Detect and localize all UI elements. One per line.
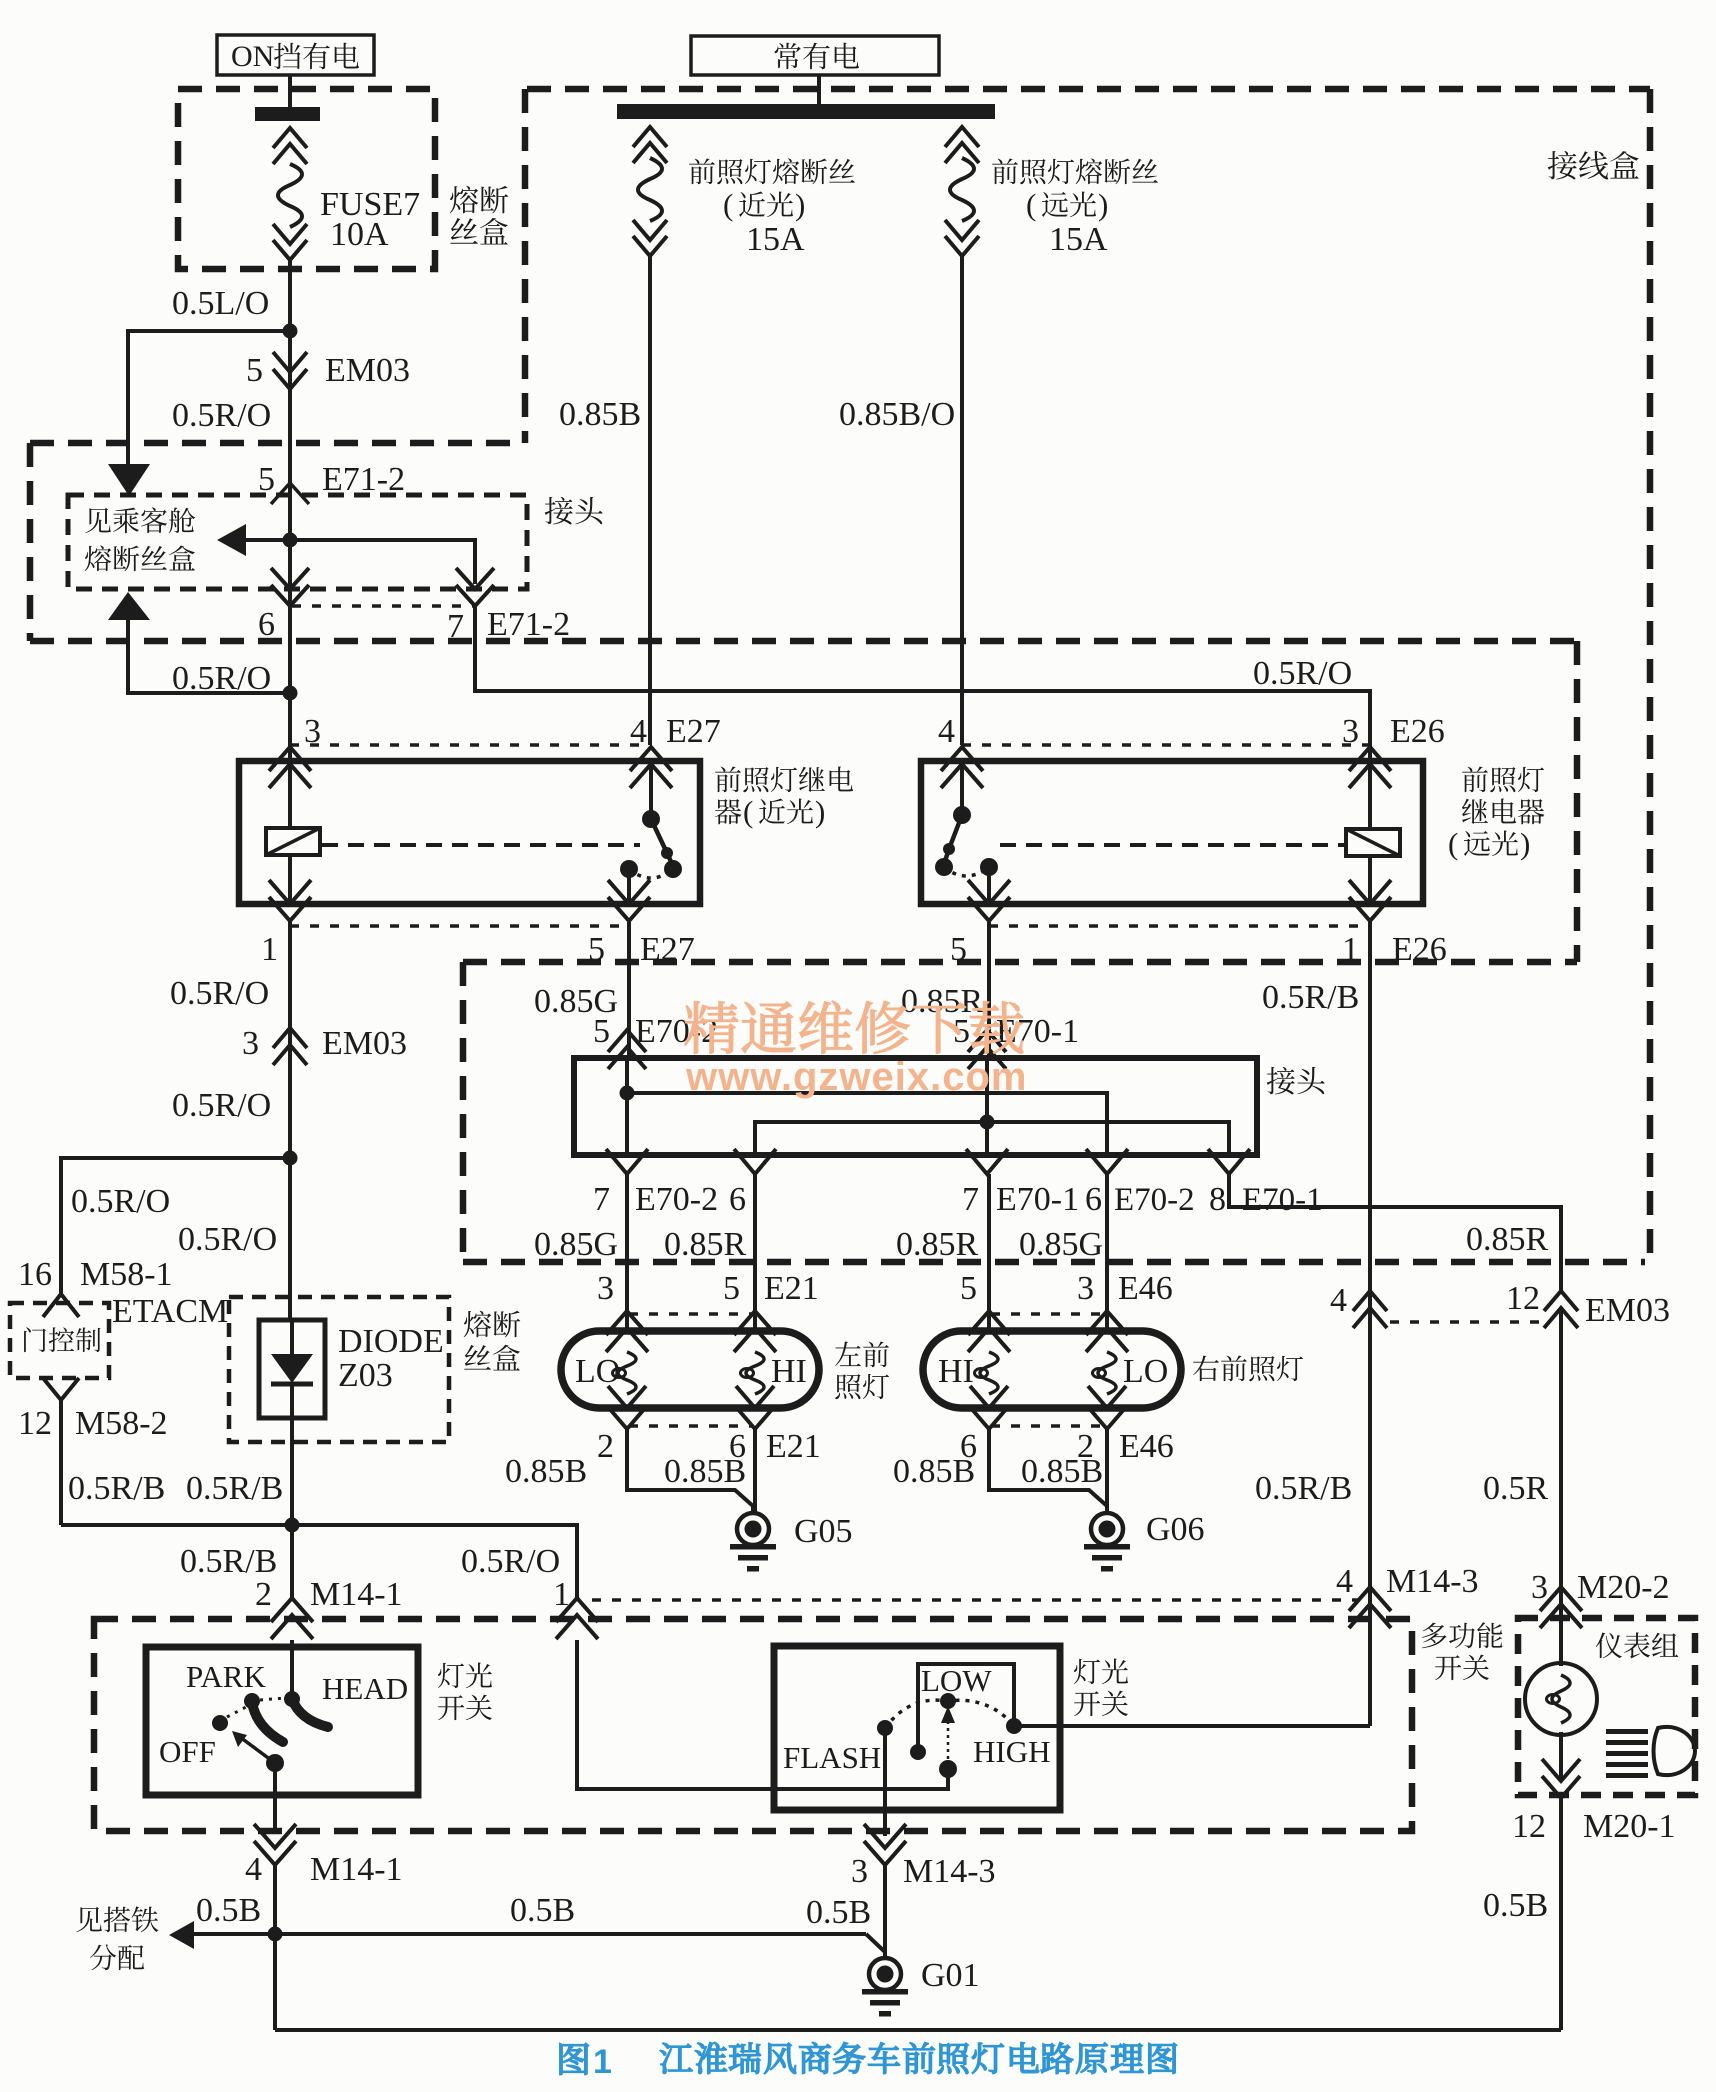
svg-text:0.5R/B: 0.5R/B (68, 1470, 165, 1507)
svg-text:E70-1: E70-1 (996, 1181, 1079, 1218)
relay coil (low beam) (266, 761, 320, 904)
wire dimmer feed (577, 1640, 948, 1789)
wire 0.85R to instrument feed (1229, 1174, 1561, 1290)
connector E46 pins 5,3 (960, 1270, 1010, 1352)
wire 0.5R/B from door control joins (61, 1523, 292, 1527)
svg-text:E46: E46 (1118, 1270, 1173, 1307)
wire 0.5R/O to dimmer feed (292, 1525, 577, 1600)
connector E26 pin 3 (1342, 713, 1445, 788)
bulb LO filament (575, 1352, 636, 1394)
wire (288, 389, 292, 540)
svg-text:1: 1 (261, 931, 278, 968)
connector E27 pin 1 (261, 880, 311, 968)
wire 0.85B (648, 256, 652, 745)
svg-text:7: 7 (447, 608, 464, 645)
wire to E21 pin 3 (625, 1174, 629, 1331)
svg-text:LO: LO (1123, 1353, 1168, 1390)
svg-text:7: 7 (593, 1181, 610, 1218)
connector body dashes E27 top (290, 743, 651, 747)
svg-text:(: ( (723, 187, 733, 222)
svg-text:0.85R: 0.85R (896, 1226, 979, 1263)
wire 0.5B to G01 (806, 1865, 885, 1957)
connector E71-2 pin 7 (447, 568, 570, 645)
connector M58-2 pin 12 (18, 1378, 168, 1525)
svg-text:HEAD: HEAD (322, 1671, 408, 1706)
wire FLASH to ground (883, 1728, 887, 1836)
wire 0.5R/O relay to EM03 (170, 922, 290, 1158)
connector EM03 pin 5 (246, 331, 410, 392)
svg-text:0.5L/O: 0.5L/O (172, 285, 269, 322)
relay contact (high beam) (935, 761, 998, 904)
svg-text:www.gzweix.com: www.gzweix.com (685, 1055, 1027, 1099)
connector E27 pin 3 (269, 747, 311, 771)
label 熔断丝盒 (450, 186, 509, 245)
wire diode to light switch (290, 1418, 294, 1598)
svg-text:DIODE: DIODE (338, 1323, 444, 1360)
label 接头 (545, 497, 573, 525)
bulb HI filament (741, 1352, 807, 1394)
svg-text:E70-2: E70-2 (635, 1181, 718, 1218)
svg-text:): ) (795, 187, 805, 222)
relay headlight low beam 前照灯继电器(近光) (239, 761, 700, 904)
wire 0.5R/O from pin7 to high-beam relay coil (475, 603, 1370, 761)
wire HIGH to M14-3 pin4 (1014, 1724, 1370, 1728)
diode DIODE Z03 (259, 1320, 325, 1418)
svg-text:HIGH: HIGH (973, 1734, 1051, 1769)
connector body dashes E26 top (962, 743, 1370, 747)
connector E27 pin 4 (630, 713, 721, 788)
relay label (近光) (715, 766, 853, 829)
svg-text:E70-1: E70-1 (1242, 1182, 1323, 1218)
svg-text:0.5R/B: 0.5R/B (186, 1470, 283, 1507)
svg-text:): ) (1520, 826, 1530, 861)
svg-text:0.5R/O: 0.5R/O (172, 397, 271, 434)
wire 0.85B to ground G05 (505, 1429, 755, 1513)
svg-text:0.5R/O: 0.5R/O (1253, 655, 1352, 692)
svg-text:LO: LO (575, 1353, 620, 1390)
ground G01 (862, 1957, 980, 2017)
svg-text:0.5R/B: 0.5R/B (1255, 1470, 1352, 1507)
svg-text:OFF: OFF (159, 1734, 216, 1769)
svg-text:0.85B: 0.85B (893, 1453, 975, 1490)
dashed link coil to contact (322, 843, 640, 847)
connector EM03 pin 3 (242, 1025, 407, 1065)
svg-text:E21: E21 (766, 1428, 821, 1465)
svg-text:G05: G05 (794, 1513, 853, 1550)
switch PARK/HEAD contacts (212, 1640, 328, 1772)
svg-text:M14-1: M14-1 (310, 1576, 403, 1613)
bulb LO filament right (1093, 1352, 1169, 1394)
svg-text:0.5B: 0.5B (1483, 1887, 1548, 1924)
relay coil (high beam) (1346, 761, 1400, 904)
off-page arrow (up) (108, 592, 150, 620)
svg-text:0.5B: 0.5B (510, 1892, 575, 1929)
wire branch to passenger fuse box (128, 331, 290, 466)
svg-text:10A: 10A (330, 216, 389, 253)
svg-text:0.85G: 0.85G (534, 1226, 618, 1263)
svg-text:E46: E46 (1119, 1428, 1174, 1465)
connector body dashes EM03 (1390, 1320, 1540, 1324)
svg-text:LOW: LOW (921, 1663, 992, 1698)
svg-text:FLASH: FLASH (783, 1740, 881, 1775)
svg-text:0.5B: 0.5B (806, 1894, 871, 1931)
svg-text:1: 1 (1342, 931, 1359, 968)
junction (283, 1151, 298, 1166)
relay label (远光) (1448, 767, 1544, 861)
svg-text:6: 6 (258, 606, 275, 643)
svg-text:3: 3 (851, 1853, 868, 1890)
dimmer switch box 灯光开关 (LOW/FLASH/HIGH) (774, 1646, 1060, 1810)
label DIODE Z03 (338, 1323, 444, 1394)
svg-text:E71-2: E71-2 (322, 461, 405, 498)
svg-text:E27: E27 (666, 713, 721, 750)
inner box 见乘客舱熔断丝盒 (dashed) (68, 495, 527, 589)
svg-text:3: 3 (242, 1025, 259, 1062)
connector E21 pin 5 feed (729, 1149, 776, 1218)
connector block 接头 (E70) (574, 1058, 1257, 1155)
wire diagonal into G01 (866, 1934, 885, 1958)
connector E71-2 pin 5 (258, 461, 405, 504)
svg-text:M14-1: M14-1 (310, 1851, 403, 1888)
fuse FUSE7 10A (273, 128, 307, 331)
off-page arrow (left) (217, 524, 246, 556)
wire 0.85R relay to E70-1 (901, 922, 989, 1058)
connector E26 pin 5 (950, 880, 1010, 968)
bulb HI filament right (938, 1352, 998, 1394)
svg-text:12: 12 (1506, 1280, 1540, 1317)
svg-text:0.5R/O: 0.5R/O (170, 975, 269, 1012)
svg-text:PARK: PARK (186, 1659, 266, 1694)
off-page arrow (down) (108, 464, 150, 496)
connector M14-1 pin 4 (245, 1824, 403, 1888)
svg-text:16: 16 (18, 1256, 52, 1293)
svg-text:ON: ON (231, 40, 274, 73)
svg-text:3: 3 (597, 1270, 614, 1307)
wire 0.5R/B high beam relay to dimmer (1262, 922, 1370, 1726)
svg-text:): ) (1098, 187, 1108, 222)
svg-text:5: 5 (723, 1270, 740, 1307)
svg-text:HI: HI (771, 1353, 807, 1390)
wire E70-2 through (620, 1058, 1108, 1155)
wire 0.5B ground distribution (194, 1892, 866, 1934)
door control box 门控制 (dashed) (10, 1303, 109, 1378)
junction box 接线盒 (dashed outline) (30, 89, 1650, 1262)
svg-text:ETACM: ETACM (112, 1293, 228, 1330)
connector EM03 pin 12 (1506, 1280, 1670, 1329)
wire from box to bus bar (817, 75, 821, 106)
svg-text:6: 6 (1085, 1181, 1102, 1218)
svg-text:EM03: EM03 (322, 1025, 407, 1062)
instrument cluster box 仪表组 (dashed) (1518, 1618, 1695, 1795)
connector E70-1 pin 7 (962, 1149, 1079, 1218)
svg-text:5: 5 (258, 461, 275, 498)
label 接线盒 (1548, 151, 1577, 180)
svg-text:0.85G: 0.85G (1019, 1226, 1103, 1263)
svg-text:0.85B: 0.85B (505, 1453, 587, 1490)
svg-text:E70-2: E70-2 (635, 1013, 718, 1050)
svg-text:EM03: EM03 (1585, 1292, 1670, 1329)
connector body dashes E27 bottom (290, 924, 629, 928)
connector M20-2 pin 3 (1531, 1569, 1670, 1628)
label 前照灯熔断丝(远光)15A (992, 158, 1158, 258)
svg-text:M14-3: M14-3 (903, 1853, 996, 1890)
headlight right 右前照灯 (923, 1331, 1181, 1408)
svg-text:12: 12 (1512, 1808, 1546, 1845)
dashed link contact to coil (1000, 843, 1348, 847)
svg-text:5: 5 (960, 1270, 977, 1307)
svg-text:0.85B: 0.85B (664, 1453, 746, 1490)
connector EM03 pin 4 (1330, 1282, 1387, 1328)
svg-text:E21: E21 (764, 1270, 819, 1307)
headlight left 左前照灯 (561, 1331, 819, 1408)
svg-text:M58-1: M58-1 (80, 1256, 173, 1293)
svg-text:0.85B/O: 0.85B/O (839, 396, 955, 433)
label FUSE7 10A (320, 186, 420, 253)
svg-text:0.5R/O: 0.5R/O (461, 1543, 560, 1580)
svg-text:EM03: EM03 (325, 352, 410, 389)
svg-text:7: 7 (962, 1181, 979, 1218)
wire 0.85B/O (960, 256, 964, 745)
svg-text:4: 4 (245, 1851, 262, 1888)
ground G06 (1084, 1511, 1205, 1572)
node ON-power source box (217, 35, 374, 75)
dimmer contacts LOW/FLASH/HIGH (877, 1664, 1022, 1778)
bus bar (battery) (617, 104, 995, 119)
connector E70-2 pin 6 (1085, 1149, 1195, 1218)
svg-text:E27: E27 (640, 931, 695, 968)
connector body dashes E26 bottom (989, 924, 1370, 928)
svg-text:1: 1 (553, 1576, 570, 1613)
connector E46 pins 6,2 (960, 1386, 1008, 1465)
svg-text:(: ( (1448, 826, 1458, 861)
connector E71-2 pin 6 (258, 540, 309, 643)
connector M14-1 pin 2 (255, 1576, 403, 1639)
svg-text:4: 4 (1330, 1282, 1347, 1319)
wire light switch output (273, 1763, 277, 1834)
wire from ON box to fuse box (288, 75, 292, 107)
svg-text:0.85R: 0.85R (901, 983, 984, 1020)
svg-text:M14-3: M14-3 (1386, 1563, 1479, 1600)
relay contact (low beam) (620, 761, 682, 904)
svg-text:2: 2 (597, 1428, 614, 1465)
svg-text:0.85B: 0.85B (559, 396, 641, 433)
svg-text:M58-2: M58-2 (75, 1405, 168, 1442)
light switch box 灯光开关 (PARK/HEAD/OFF) (146, 1647, 418, 1795)
svg-text:5: 5 (246, 352, 263, 389)
svg-text:(: ( (743, 794, 753, 829)
svg-text:G01: G01 (921, 1957, 980, 1994)
wire 0.5B instrument to ground bus (1483, 1798, 1561, 2030)
svg-text:): ) (815, 794, 825, 829)
wire labels 0.85G/0.85R row (534, 1226, 1103, 1263)
connector body dashes M14 (592, 1598, 1358, 1602)
svg-text:HI: HI (938, 1353, 974, 1390)
svg-text:5: 5 (950, 931, 967, 968)
svg-text:3: 3 (1077, 1270, 1094, 1307)
svg-text:E70-2: E70-2 (1114, 1182, 1195, 1218)
svg-text:M20-1: M20-1 (1583, 1808, 1676, 1845)
svg-text:0.5R: 0.5R (1483, 1470, 1549, 1507)
off-page arrow 见搭铁分配 (169, 1921, 194, 1949)
svg-text:E26: E26 (1390, 713, 1445, 750)
connector M14-3 pin 3 (851, 1824, 996, 1890)
connector E21 pins 3,5 (597, 1270, 648, 1352)
wire to E21 pin 5 (753, 1174, 757, 1331)
connector E70-1 pin 8 (1208, 1149, 1323, 1218)
connector E70-1 pin 5 (953, 1013, 1079, 1069)
label 前照灯熔断丝(近光)15A (689, 158, 855, 258)
ground G05 (730, 1513, 853, 1572)
wire 0.5R/O return branch (128, 597, 290, 693)
svg-text:8: 8 (1209, 1181, 1226, 1218)
svg-text:15A: 15A (746, 221, 805, 258)
connector M14-1 pin 1 (553, 1576, 598, 1639)
wire to relay coil (288, 614, 292, 761)
connector E70-2 pin 7 (593, 1149, 718, 1218)
svg-text:15A: 15A (1049, 221, 1108, 258)
svg-text:0.5R/O: 0.5R/O (172, 660, 271, 697)
svg-text:4: 4 (938, 713, 955, 750)
svg-text:3: 3 (1531, 1569, 1548, 1606)
wire into diode (288, 1158, 292, 1320)
svg-text:0.5R/B: 0.5R/B (180, 1543, 277, 1580)
multifunction switch box 多功能开关 (dashed) (94, 1619, 1412, 1831)
wire E70-1 through (755, 1058, 1229, 1155)
connector E26 pin 4 (938, 713, 983, 788)
junction (283, 533, 298, 548)
svg-text:0.85R: 0.85R (664, 1226, 747, 1263)
wire to E46 pin 3 (1105, 1174, 1109, 1331)
svg-text:G06: G06 (1146, 1511, 1205, 1548)
svg-text:0.5R/O: 0.5R/O (71, 1183, 170, 1220)
fuse box (dashed) 熔断丝盒 (178, 89, 435, 269)
high beam indicator icon (1606, 1727, 1695, 1778)
wire 0.85B to ground G06 (893, 1429, 1107, 1513)
svg-text:0.5R/B: 0.5R/B (1262, 979, 1359, 1016)
svg-text:6: 6 (729, 1181, 746, 1218)
junction (268, 1927, 283, 1942)
caption 图1 circuit title (560, 2042, 1177, 2081)
relay headlight high beam 前照灯继电器(远光) (921, 761, 1423, 904)
wire to passenger fuse box arrow (246, 538, 290, 542)
wire 0.85G relay to E70-2 (534, 922, 629, 1058)
wire to E46 pin 5 (987, 1174, 991, 1331)
svg-text:0.5R/O: 0.5R/O (178, 1221, 277, 1258)
svg-text:Z03: Z03 (338, 1357, 393, 1394)
node battery power box 常有电 (691, 36, 939, 75)
watermark 精通维修下载 (684, 1001, 1027, 1099)
svg-text:12: 12 (18, 1405, 52, 1442)
wire branch to ETACM (61, 1158, 290, 1296)
fuse headlight low beam 15A (633, 127, 667, 256)
connector body dashes E71-2 (292, 604, 473, 608)
svg-text:E71-2: E71-2 (487, 606, 570, 643)
svg-text:0.85B: 0.85B (1021, 1453, 1103, 1490)
ground bus wire (275, 2028, 1561, 2032)
connector M14-3 pin 4 (1336, 1563, 1479, 1628)
svg-text:E26: E26 (1392, 931, 1447, 968)
wire 0.5R to instrument cluster (1483, 1308, 1561, 1663)
junction (283, 686, 298, 701)
wire M14-1 pin4 down to bus (273, 1865, 277, 2030)
junction (283, 324, 298, 339)
connector E21 pins 2,6 (597, 1386, 646, 1465)
fuse box around diode (dashed) 熔断丝盒 (229, 1297, 449, 1442)
connector E26 pin 1 (1342, 880, 1447, 968)
junction (285, 1518, 300, 1533)
svg-text:(: ( (1026, 187, 1036, 222)
svg-text:0.85R: 0.85R (1466, 1221, 1549, 1258)
connector M58-1 pin 16 (18, 1256, 173, 1317)
svg-text:4: 4 (1336, 1563, 1353, 1600)
connector M20-1 pin 12 (1512, 1759, 1676, 1845)
svg-text:2: 2 (255, 1576, 272, 1613)
fuse headlight high beam 15A (945, 127, 979, 256)
wire to pin 7 (290, 540, 475, 584)
svg-text:1: 1 (593, 2043, 612, 2081)
svg-text:0.5R/O: 0.5R/O (172, 1087, 271, 1124)
connector E70-2 pin 5 (593, 1013, 718, 1069)
svg-text:5: 5 (588, 931, 605, 968)
indicator bulb (1525, 1640, 1597, 1780)
svg-text:M20-2: M20-2 (1577, 1569, 1670, 1606)
svg-text:0.5B: 0.5B (196, 1892, 261, 1929)
connector E27 pin 5 (588, 880, 695, 968)
svg-text:5: 5 (593, 1013, 610, 1050)
bus bar (fuse feed) (255, 107, 320, 121)
